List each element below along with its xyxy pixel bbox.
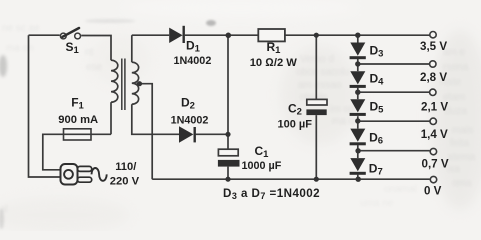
svg-text:ixa: ixa	[447, 164, 460, 175]
svg-text:100 µF: 100 µF	[278, 119, 313, 131]
svg-text:1N4002: 1N4002	[171, 114, 209, 126]
svg-text:stema: stema	[448, 152, 476, 163]
svg-text:ese: ese	[86, 62, 103, 73]
svg-text:duza: duza	[445, 106, 467, 117]
svg-text:2,8 V: 2,8 V	[420, 71, 447, 84]
svg-text:uma ne: uma ne	[360, 198, 394, 209]
svg-text:onamal: onamal	[384, 184, 417, 195]
svg-text:ne sc ae: ne sc ae	[2, 23, 40, 34]
svg-text:D3 a D7 =1N4002: D3 a D7 =1N4002	[223, 187, 320, 201]
svg-text:oma: oma	[452, 178, 472, 189]
svg-text:1,4 V: 1,4 V	[421, 128, 448, 141]
svg-text:nt: nt	[85, 47, 94, 58]
svg-text:feita: feita	[450, 138, 469, 149]
svg-text:0,7 V: 0,7 V	[422, 158, 449, 171]
svg-text:220 V: 220 V	[110, 175, 140, 187]
svg-text:110/: 110/	[115, 161, 136, 173]
svg-text:1000 µF: 1000 µF	[242, 160, 282, 172]
svg-text:2,1 V: 2,1 V	[421, 100, 448, 113]
svg-text:3,5 V: 3,5 V	[420, 40, 447, 53]
svg-text:mais: mais	[452, 125, 473, 136]
svg-text:900 mA: 900 mA	[58, 114, 98, 126]
svg-text:obce sacnlu: obce sacnlu	[296, 67, 349, 78]
svg-text:10 Ω/2 W: 10 Ω/2 W	[250, 57, 298, 69]
svg-text:1N4002: 1N4002	[174, 55, 212, 67]
svg-text:am essao: am essao	[298, 80, 342, 91]
svg-text:0 V: 0 V	[424, 184, 442, 197]
svg-text:ma on: ma on	[6, 43, 34, 54]
